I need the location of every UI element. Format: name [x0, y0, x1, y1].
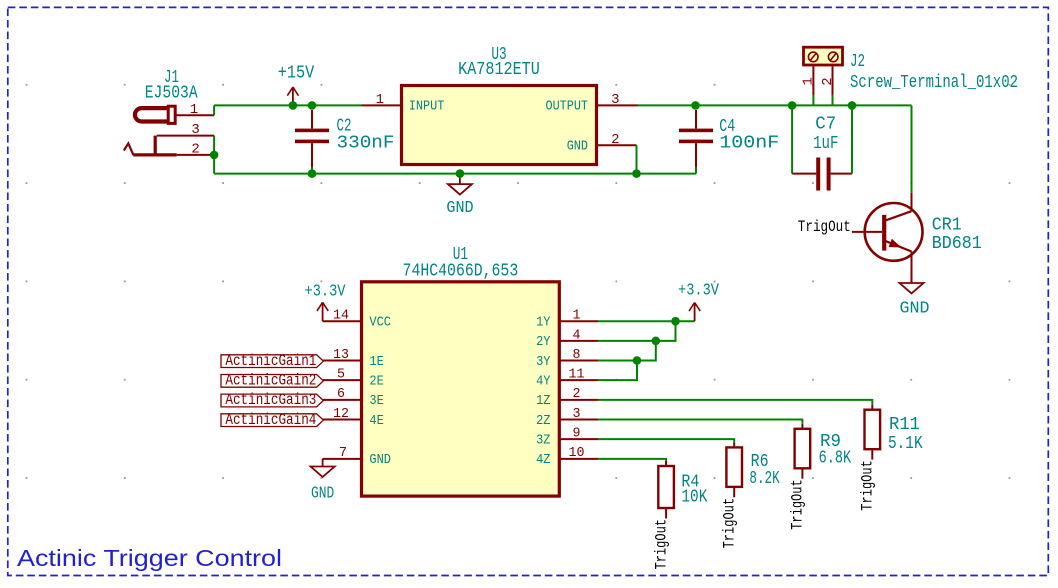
U1 pin 6 3E — [323, 386, 384, 409]
svg-text:10K: 10K — [681, 488, 707, 508]
svg-text:74HC4066D,653: 74HC4066D,653 — [403, 262, 519, 282]
U3 pin 1 INPUT — [362, 92, 445, 115]
svg-text:100nF: 100nF — [719, 133, 779, 153]
resistor R11 — [865, 405, 881, 460]
svg-text:TrigOut: TrigOut — [652, 519, 670, 570]
svg-text:R11: R11 — [889, 415, 920, 435]
junction U3 GND at rail — [632, 169, 641, 178]
svg-text:330nF: 330nF — [337, 134, 395, 154]
svg-text:INPUT: INPUT — [409, 99, 445, 115]
resistor R9 — [795, 424, 811, 479]
U3 pin 2 GND — [567, 132, 637, 155]
wire U1 to R4 — [598, 459, 666, 461]
U1 pin 4 2Y — [536, 327, 598, 350]
J1 pin 1 — [177, 102, 215, 118]
svg-text:CR1: CR1 — [932, 215, 962, 235]
svg-text:3Y: 3Y — [536, 354, 551, 370]
J1 pin 3 — [157, 122, 214, 138]
power +3.3V at U1 VCC — [305, 283, 347, 322]
capacitor C4 — [679, 110, 713, 167]
svg-text:1: 1 — [190, 102, 198, 118]
svg-text:10: 10 — [569, 445, 585, 461]
power +15V — [278, 63, 315, 105]
svg-text:ActinicGain3: ActinicGain3 — [225, 391, 316, 409]
junction +15V on rail — [289, 101, 298, 110]
U1 pin 11 4Y — [536, 367, 598, 390]
svg-text:+3.3V: +3.3V — [678, 282, 720, 301]
svg-text:GND: GND — [311, 485, 334, 504]
svg-text:11: 11 — [569, 367, 585, 383]
svg-text:2Z: 2Z — [536, 413, 550, 429]
wire J1.3 down to J1.2 — [213, 136, 215, 174]
svg-text:2: 2 — [820, 77, 836, 85]
U1 pin 7 GND — [323, 445, 391, 468]
wire C7 right leg — [851, 105, 853, 173]
U1 pin 9 3Z — [536, 426, 598, 449]
ground symbol below CR1 — [900, 283, 924, 293]
svg-text:4Z: 4Z — [536, 452, 550, 468]
svg-text:Screw_Terminal_01x02: Screw_Terminal_01x02 — [850, 73, 1018, 93]
svg-text:14: 14 — [333, 308, 349, 324]
U3 pin 3 OUTPUT — [546, 92, 639, 115]
svg-text:ActinicGain2: ActinicGain2 — [225, 372, 316, 390]
svg-text:6: 6 — [337, 386, 345, 402]
wire 2Y step — [598, 321, 676, 341]
U1 pin 14 VCC — [323, 308, 391, 331]
svg-text:GND: GND — [567, 139, 588, 155]
svg-text:2E: 2E — [369, 373, 383, 389]
wire rail to CR1 collector — [911, 105, 913, 192]
svg-text:2: 2 — [191, 141, 199, 157]
U1 pin 3 2Z — [536, 406, 598, 429]
svg-text:9: 9 — [573, 426, 581, 442]
U1 pin 8 3Y — [536, 347, 598, 370]
svg-text:J2: J2 — [850, 52, 865, 72]
svg-text:EJ503A: EJ503A — [145, 84, 198, 104]
regulator U3 body — [402, 86, 597, 165]
svg-text:8.2K: 8.2K — [749, 469, 779, 489]
svg-text:7: 7 — [339, 445, 347, 461]
svg-text:2: 2 — [573, 386, 581, 402]
svg-text:GND: GND — [369, 452, 391, 468]
U1 pin 2 1Z — [536, 386, 598, 409]
wire 3Y step — [598, 341, 656, 361]
svg-text:2Y: 2Y — [536, 334, 551, 350]
wire U1 to R6 — [598, 439, 734, 442]
U1 pin 12 4E — [323, 406, 384, 429]
hierarchical label ActinicGain3 — [221, 391, 323, 409]
junction C2 top — [308, 101, 317, 110]
svg-text:GND: GND — [900, 300, 930, 319]
svg-text:3Z: 3Z — [536, 432, 550, 448]
wire top rail to U3 input — [214, 104, 361, 106]
svg-text:TrigOut: TrigOut — [859, 460, 877, 511]
junction J2.1 — [788, 101, 797, 110]
svg-text:C7: C7 — [815, 115, 836, 135]
svg-text:3: 3 — [611, 92, 619, 108]
transistor CR1 (BD681) — [852, 193, 923, 283]
wire C2 bottom to rail — [311, 167, 313, 174]
svg-text:1: 1 — [800, 77, 816, 85]
svg-text:ActinicGain1: ActinicGain1 — [225, 352, 316, 370]
junction 3Y-4Y — [633, 356, 642, 365]
svg-text:1Y: 1Y — [536, 315, 551, 331]
svg-text:1uF: 1uF — [813, 134, 838, 154]
U1 pin 10 4Z — [536, 445, 598, 468]
svg-text:1E: 1E — [369, 354, 383, 370]
wire 4Y step — [598, 361, 637, 381]
svg-text:4E: 4E — [369, 413, 383, 429]
svg-text:13: 13 — [333, 347, 349, 363]
capacitor C7 — [792, 158, 852, 191]
svg-text:OUTPUT: OUTPUT — [546, 99, 589, 115]
J2 pin 1 — [800, 66, 816, 95]
wire J2.2 to rail — [832, 95, 834, 105]
svg-text:GND: GND — [446, 199, 473, 218]
svg-text:ActinicGain4: ActinicGain4 — [225, 411, 316, 429]
svg-text:1: 1 — [573, 308, 581, 324]
ground symbol below rail — [448, 174, 472, 195]
J1 pin 2 — [177, 141, 214, 157]
resistor R4 — [658, 461, 674, 518]
junction ground stub — [456, 169, 465, 178]
svg-text:TrigOut: TrigOut — [720, 498, 738, 549]
IC U1 body — [362, 282, 560, 496]
wire C7 left leg — [791, 105, 793, 173]
svg-text:+15V: +15V — [278, 63, 315, 83]
wire bottom rail — [214, 173, 696, 175]
hierarchical label ActinicGain4 — [221, 411, 323, 429]
svg-text:4Y: 4Y — [536, 373, 551, 389]
U1 pin 5 2E — [323, 367, 384, 390]
connector J2 screw terminal body — [804, 47, 843, 65]
svg-text:KA7812ETU: KA7812ETU — [458, 60, 540, 80]
junction 2Y-3Y — [652, 337, 661, 346]
junction J2.2 — [848, 101, 857, 110]
wire J2.1 to rail — [812, 95, 814, 105]
J2 pin 2 — [820, 66, 836, 95]
U1 pin 13 1E — [323, 347, 384, 370]
wire J1.1 to top rail — [213, 105, 215, 115]
junction C4 top — [691, 101, 700, 110]
resistor R6 — [726, 442, 742, 497]
connector J1 (barrel jack EJ503A) — [124, 106, 177, 155]
power +3.3V at U1 outputs — [678, 282, 720, 322]
svg-text:+3.3V: +3.3V — [305, 283, 347, 302]
svg-text:2: 2 — [611, 132, 619, 148]
svg-text:3: 3 — [573, 406, 581, 422]
svg-text:1Z: 1Z — [536, 393, 550, 409]
svg-text:VCC: VCC — [369, 315, 391, 331]
ground symbol at U1 pin 7 — [311, 459, 335, 477]
U1 pin 1 1Y — [536, 308, 598, 331]
capacitor C2 — [295, 110, 329, 167]
wire U1 to R9 — [598, 420, 802, 424]
junction C2 bottom — [308, 169, 317, 178]
svg-text:4: 4 — [573, 327, 581, 343]
svg-text:12: 12 — [333, 406, 349, 422]
svg-text:8: 8 — [573, 347, 581, 363]
svg-text:BD681: BD681 — [932, 234, 982, 254]
svg-text:Actinic Trigger Control: Actinic Trigger Control — [17, 545, 282, 571]
junction 1Y-2Y — [671, 317, 680, 326]
svg-text:5.1K: 5.1K — [888, 434, 923, 454]
svg-text:TrigOut: TrigOut — [789, 479, 807, 530]
wire U3 GND pin down to rail — [636, 145, 638, 173]
wire 1Y to +3.3V — [598, 320, 695, 322]
svg-text:3E: 3E — [369, 393, 383, 409]
svg-text:TrigOut: TrigOut — [798, 218, 851, 236]
wire C4 bottom corner — [695, 167, 697, 174]
junction at J1.2 — [210, 151, 219, 160]
hierarchical label ActinicGain2 — [221, 372, 323, 390]
wire U1 to R11 — [598, 400, 872, 405]
hierarchical label ActinicGain1 — [221, 352, 323, 370]
svg-text:1: 1 — [376, 92, 384, 108]
svg-text:6.8K: 6.8K — [819, 449, 852, 469]
svg-text:3: 3 — [191, 122, 199, 138]
svg-text:5: 5 — [337, 367, 345, 383]
wire U3 output rail — [638, 104, 912, 106]
